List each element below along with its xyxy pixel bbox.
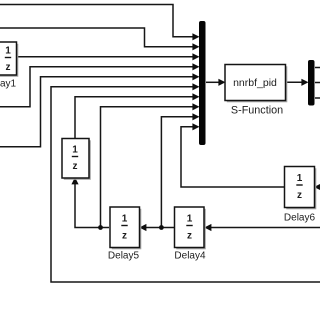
arrowhead into Delay5 (points left) xyxy=(139,224,146,231)
wire A (left edge to mux in4) xyxy=(0,67,193,107)
svg-text:1: 1 xyxy=(187,214,193,225)
wire C (bottom feedback to mux in6) xyxy=(51,87,320,282)
arrowhead into Delay4 (points left) xyxy=(204,224,211,231)
block Delay5 xyxy=(108,207,141,262)
svg-text:z: z xyxy=(73,161,78,172)
wire Delay5 output to vertical delay input xyxy=(75,184,109,228)
wire S-Function output to demux input xyxy=(286,81,303,83)
arrowhead into Delay6 (flipped, points left) xyxy=(314,183,320,190)
wire Delay6 output to mux in10 xyxy=(181,127,284,187)
wire demux output 2 stub xyxy=(315,82,320,84)
wire vertical-delay output to mux in7 xyxy=(75,97,193,139)
mux arrowhead in6 xyxy=(192,83,199,90)
svg-text:Delay5: Delay5 xyxy=(108,251,140,262)
svg-text:S-Function: S-Function xyxy=(231,105,283,117)
wire L2 (second input to mux in2) xyxy=(0,28,193,47)
mux arrowhead in5 xyxy=(192,73,199,80)
arrowhead into vertical delay (points up) xyxy=(71,177,78,184)
junction node on Delay4 output wire xyxy=(159,225,164,230)
svg-text:Delay4: Delay4 xyxy=(174,251,206,262)
svg-text:1: 1 xyxy=(72,145,78,156)
block Delay1 (cut off at left edge) xyxy=(0,42,18,90)
svg-text:1: 1 xyxy=(122,214,128,225)
mux arrowhead in8 xyxy=(192,103,199,110)
wire Delay4 output to Delay5 input xyxy=(146,227,174,229)
wire B (left edge to mux in5) xyxy=(0,77,193,147)
mux U1 (black bar) xyxy=(199,21,206,145)
wire Delay4 input from right edge xyxy=(211,227,320,229)
wire Delay1 output to mux in3 xyxy=(16,56,194,58)
block Delay6 (flipped) xyxy=(284,167,316,224)
block vertical delay (rotated, input at bottom) xyxy=(62,139,91,180)
wire Delay6 input from right edge xyxy=(315,186,320,188)
svg-text:1: 1 xyxy=(297,173,303,184)
svg-text:Delay6: Delay6 xyxy=(284,213,316,224)
wire mux output to S-Function input xyxy=(206,81,219,83)
wire branch from Delay4 output to mux in9 xyxy=(161,117,193,228)
wire branch from Delay5 output to mux in8 xyxy=(101,107,194,228)
mux arrowhead in3 xyxy=(192,53,199,60)
block S-Function U3 nnrbf_pid xyxy=(225,65,287,117)
svg-text:z: z xyxy=(297,190,302,201)
mux arrowhead in1 xyxy=(192,33,199,40)
wire demux output 1 stub xyxy=(315,67,320,69)
svg-text:z: z xyxy=(122,231,127,242)
wire L1 (top input to mux in1) xyxy=(0,5,193,37)
svg-text:1: 1 xyxy=(5,46,11,57)
block Delay4 xyxy=(174,207,206,262)
wire demux output 3 stub xyxy=(315,97,320,99)
junction node on Delay5 output wire xyxy=(98,225,103,230)
arrowhead into demux xyxy=(301,79,308,86)
svg-text:nnrbf_pid: nnrbf_pid xyxy=(233,77,277,89)
mux arrowhead in4 xyxy=(192,63,199,70)
demux U2 (black bar) xyxy=(308,60,315,106)
svg-text:Delay1: Delay1 xyxy=(0,79,16,90)
mux arrowhead in9 xyxy=(192,113,199,120)
mux arrowhead in2 xyxy=(192,43,199,50)
svg-text:z: z xyxy=(187,231,192,242)
mux arrowhead in7 xyxy=(192,93,199,100)
mux arrowhead in10 xyxy=(192,123,199,130)
arrowhead into S-Function xyxy=(218,79,225,86)
svg-text:z: z xyxy=(6,62,11,73)
